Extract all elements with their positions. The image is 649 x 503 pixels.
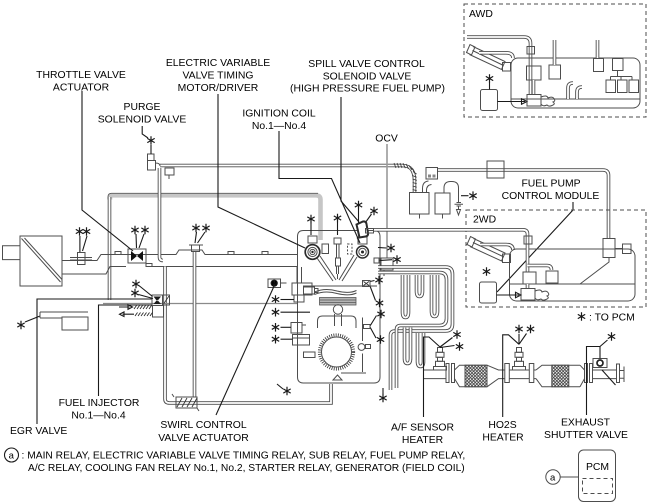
svg-text:AWD: AWD bbox=[469, 9, 493, 20]
svg-text:HO2S: HO2S bbox=[488, 420, 516, 431]
svg-text:MOTOR/DRIVER: MOTOR/DRIVER bbox=[178, 83, 259, 94]
svg-text:: MAIN RELAY, ELECTRIC VARIABL: : MAIN RELAY, ELECTRIC VARIABLE VALVE TI… bbox=[22, 451, 466, 462]
svg-text:FUEL PUMP: FUEL PUMP bbox=[521, 179, 580, 190]
svg-text:PURGE: PURGE bbox=[124, 102, 161, 113]
svg-text:No.1—No.4: No.1—No.4 bbox=[252, 121, 307, 132]
svg-text:HEATER: HEATER bbox=[482, 433, 524, 444]
svg-text:SPILL VALVE CONTROL: SPILL VALVE CONTROL bbox=[308, 59, 425, 70]
svg-text:SWIRL CONTROL: SWIRL CONTROL bbox=[160, 420, 246, 431]
svg-text:ELECTRIC VARIABLE: ELECTRIC VARIABLE bbox=[166, 58, 270, 69]
svg-text:CONTROL MODULE: CONTROL MODULE bbox=[502, 191, 600, 202]
svg-text:EGR VALVE: EGR VALVE bbox=[10, 426, 67, 437]
svg-text:No.1—No.4: No.1—No.4 bbox=[71, 411, 126, 422]
svg-text:SOLENOID VALVE: SOLENOID VALVE bbox=[98, 115, 187, 126]
svg-text:a: a bbox=[550, 473, 556, 484]
svg-text:2WD: 2WD bbox=[473, 215, 496, 226]
svg-text:A/F SENSOR: A/F SENSOR bbox=[391, 423, 454, 434]
svg-text:THROTTLE VALVE: THROTTLE VALVE bbox=[36, 70, 126, 81]
svg-text:(HIGH PRESSURE FUEL PUMP): (HIGH PRESSURE FUEL PUMP) bbox=[290, 84, 445, 95]
svg-text:FUEL INJECTOR: FUEL INJECTOR bbox=[59, 398, 140, 409]
svg-text:SHUTTER VALVE: SHUTTER VALVE bbox=[544, 430, 628, 441]
svg-text:A/C RELAY, COOLING FAN RELAY N: A/C RELAY, COOLING FAN RELAY No.1, No.2,… bbox=[28, 463, 465, 474]
svg-text:PCM: PCM bbox=[586, 462, 609, 473]
svg-text:ACTUATOR: ACTUATOR bbox=[53, 83, 110, 94]
svg-text:a: a bbox=[9, 451, 15, 462]
svg-text:: TO PCM: : TO PCM bbox=[589, 313, 635, 324]
svg-text:OCV: OCV bbox=[375, 134, 398, 145]
svg-text:HEATER: HEATER bbox=[402, 435, 444, 446]
svg-text:IGNITION COIL: IGNITION COIL bbox=[242, 109, 316, 120]
svg-text:SOLENOID VALVE: SOLENOID VALVE bbox=[323, 72, 412, 83]
svg-text:VALVE ACTUATOR: VALVE ACTUATOR bbox=[158, 433, 249, 444]
svg-text:EXHAUST: EXHAUST bbox=[561, 418, 611, 429]
svg-text:VALVE TIMING: VALVE TIMING bbox=[182, 71, 253, 82]
